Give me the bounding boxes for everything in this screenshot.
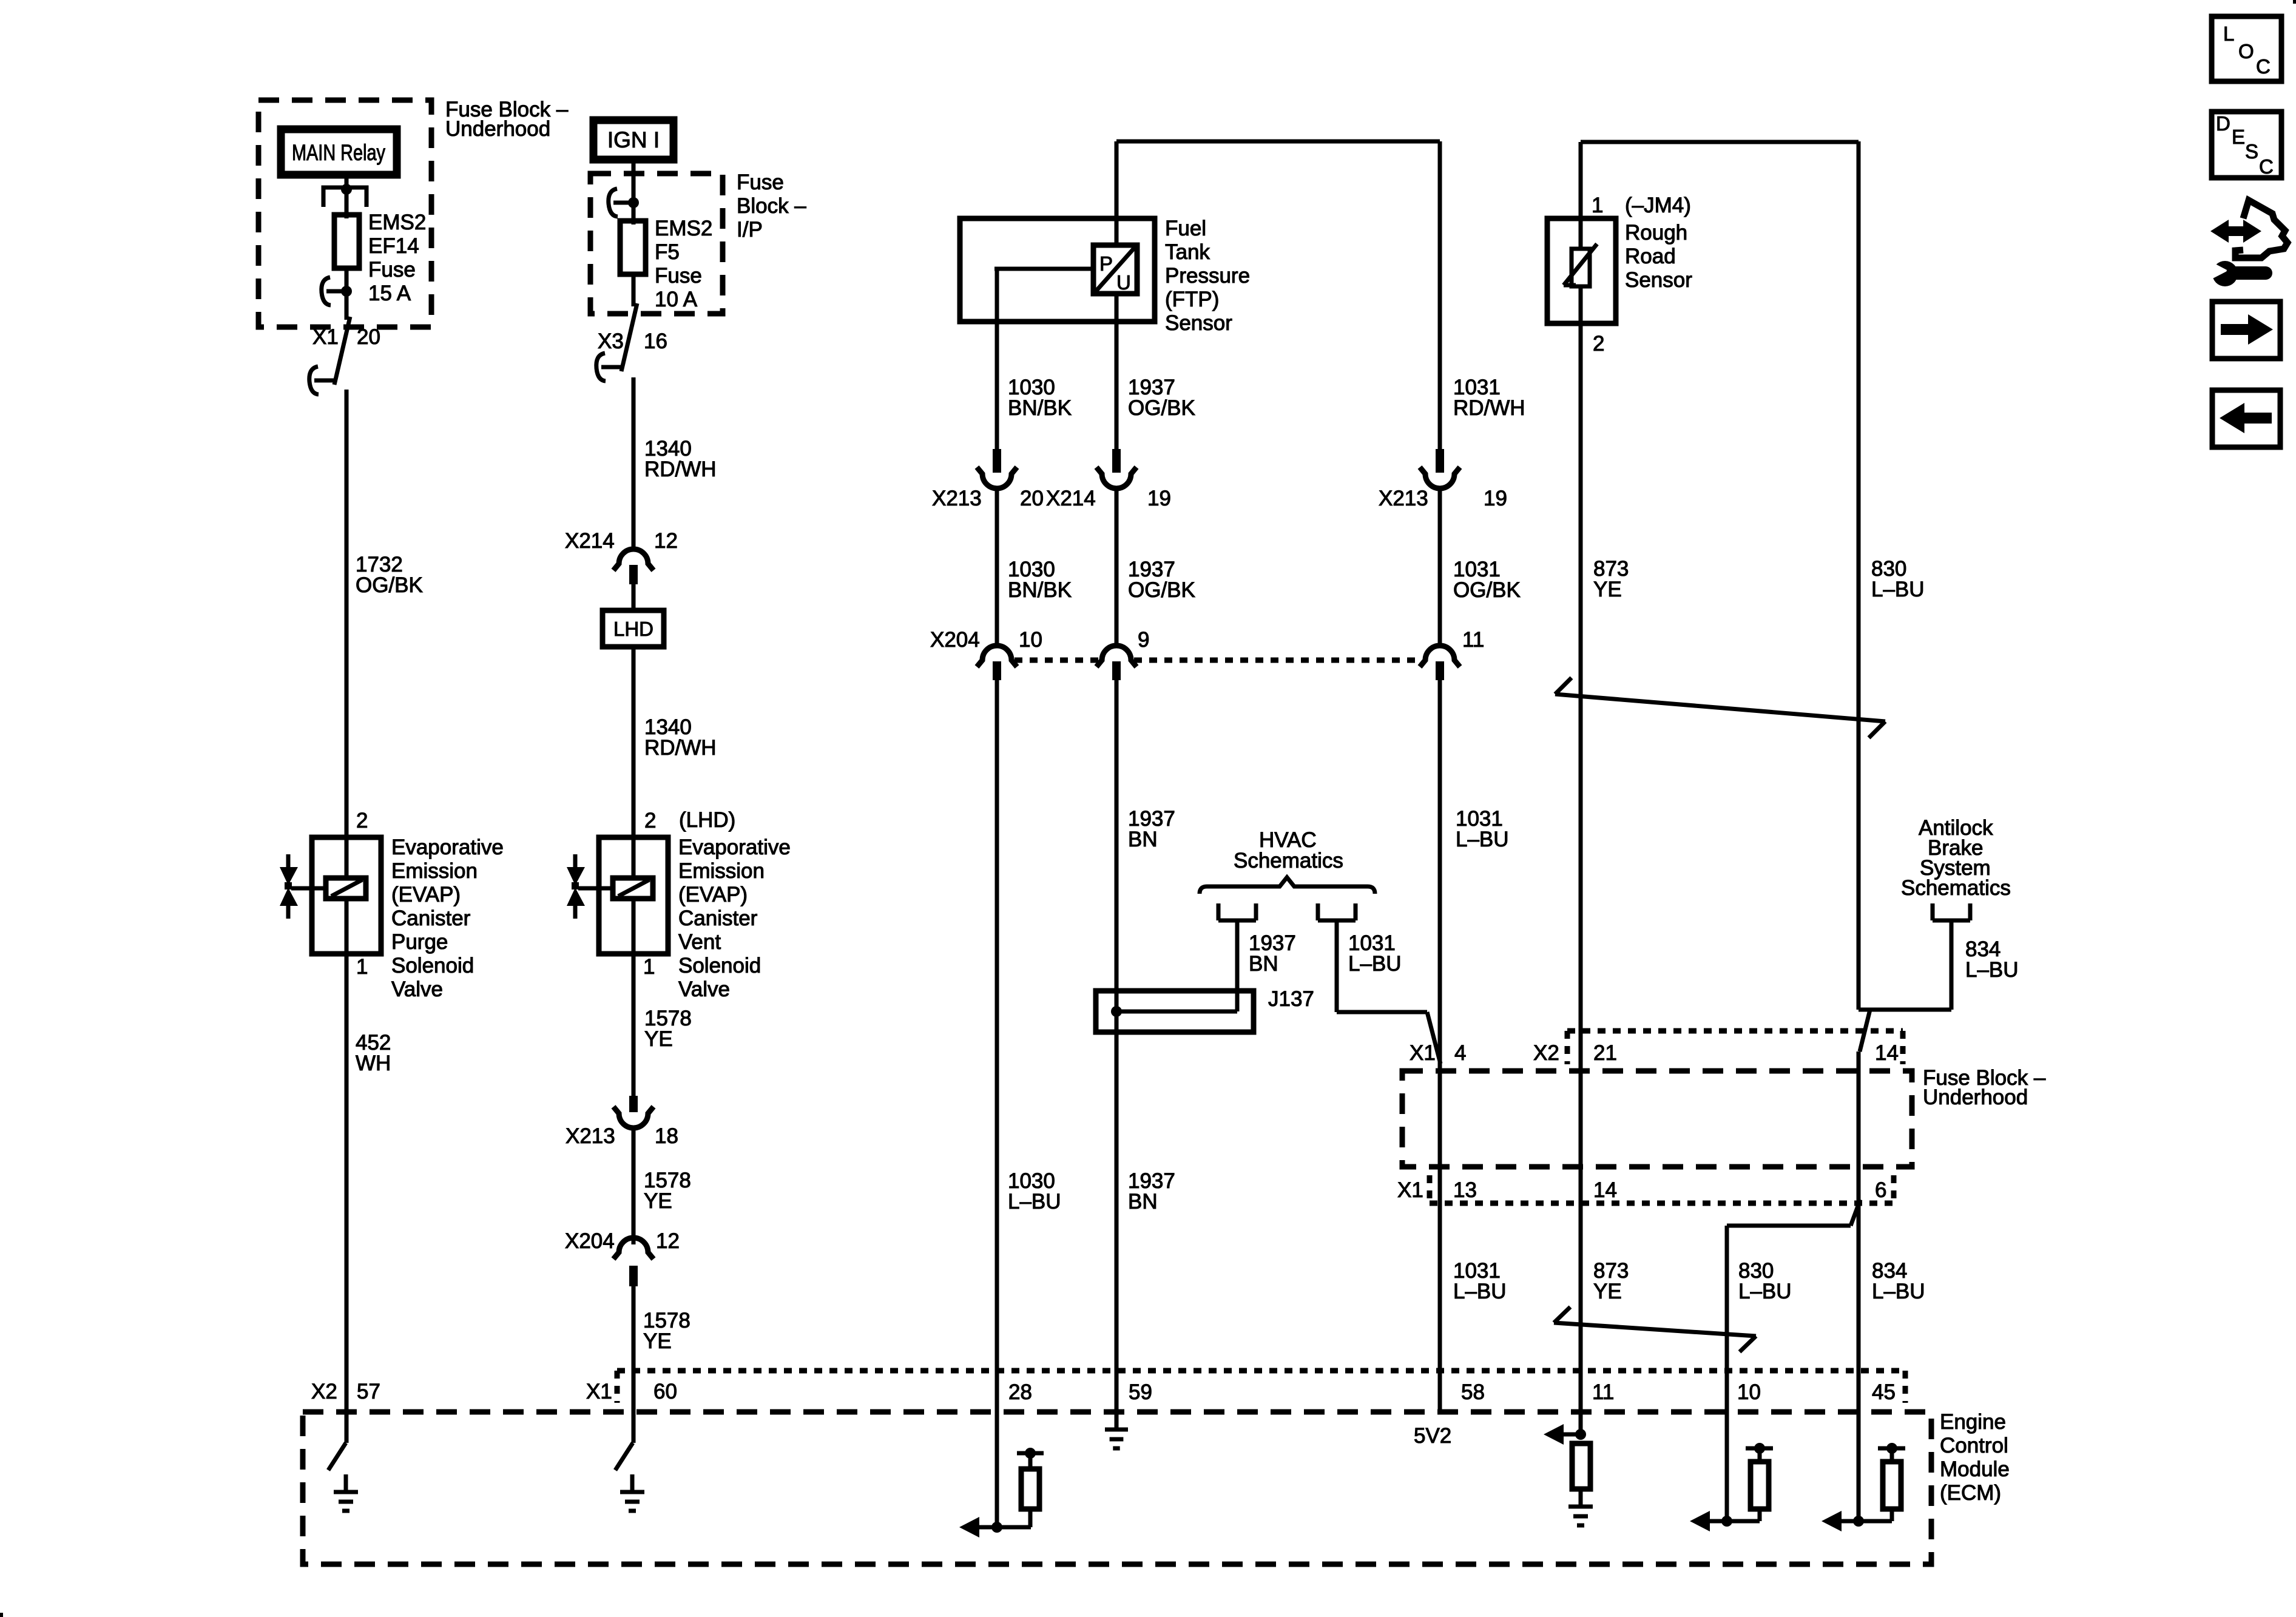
- svg-text:X1: X1: [312, 325, 339, 349]
- svg-text:19: 19: [1484, 487, 1507, 510]
- svg-text:L–BU: L–BU: [1872, 1280, 1925, 1303]
- svg-text:Engine: Engine: [1940, 1410, 2006, 1434]
- connector X1 pin 20 pass-through: [334, 317, 350, 385]
- node ECM pin 11: [1575, 1429, 1586, 1440]
- rough road inner wires: [1579, 218, 1583, 250]
- svg-text:1: 1: [1592, 194, 1603, 217]
- svg-text:Pressure: Pressure: [1165, 264, 1250, 288]
- svg-text:X204: X204: [930, 628, 980, 652]
- HVAC branch post 1937: [1217, 903, 1221, 920]
- wire 1340 RD/WH upper: [632, 377, 636, 550]
- icon adjust outline: [2235, 200, 2288, 258]
- svg-text:Sensor: Sensor: [1625, 268, 1692, 292]
- svg-text:YE: YE: [644, 1027, 673, 1051]
- svg-text:Canister: Canister: [391, 906, 471, 930]
- wire fuse F5 to X3-16: [632, 274, 636, 306]
- svg-text:2: 2: [1593, 332, 1604, 356]
- connector X204 pin 9 dome: [1096, 646, 1136, 667]
- ground ECM pin 11 internal: [1579, 1489, 1583, 1507]
- svg-text:5V2: 5V2: [1414, 1424, 1451, 1448]
- svg-text:BN: BN: [1249, 952, 1278, 976]
- svg-text:13: 13: [1453, 1178, 1477, 1202]
- svg-text:X214: X214: [565, 529, 615, 553]
- wire rough road pin 1: [1579, 142, 1583, 218]
- node fuse EF14 top: [341, 286, 352, 297]
- HVAC brace: [1200, 877, 1375, 894]
- svg-text:OG/BK: OG/BK: [1453, 578, 1521, 602]
- svg-text:19: 19: [1147, 487, 1171, 510]
- wire 834 L-BU from ABS: [1950, 920, 1954, 1010]
- svg-text:OG/BK: OG/BK: [1128, 578, 1195, 602]
- connector X204 pin 9 blade: [1112, 661, 1121, 680]
- connector X3 pin 16 pass-through: [621, 303, 637, 371]
- wire 830 jog to ECM 10: [1727, 1224, 1851, 1228]
- ECM connector dotted line: [617, 1368, 1905, 1374]
- svg-text:D: D: [2216, 112, 2230, 135]
- svg-text:(FTP): (FTP): [1165, 288, 1219, 311]
- thermistor symbol: [1572, 249, 1590, 286]
- svg-text:RD/WH: RD/WH: [644, 736, 717, 760]
- svg-text:Underhood: Underhood: [445, 117, 550, 141]
- fuse block underhood dashed box: [258, 100, 431, 327]
- arrow ECM pin 10 internal: [1690, 1511, 1710, 1531]
- svg-text:10 A: 10 A: [655, 288, 698, 311]
- wire fuse EF14 to X1-20: [345, 268, 349, 320]
- svg-text:1: 1: [356, 955, 368, 979]
- svg-text:L–BU: L–BU: [1348, 952, 1402, 976]
- svg-text:12: 12: [656, 1229, 680, 1253]
- resistor 45 bottom stem: [1890, 1509, 1894, 1521]
- svg-text:X213: X213: [932, 487, 982, 510]
- connector X204 pin 12 blade: [629, 1266, 638, 1286]
- icon wrench: [2212, 261, 2238, 286]
- icon forward box: [2212, 302, 2280, 359]
- svg-text:10: 10: [1019, 628, 1042, 652]
- icon adjust arrow: [2210, 220, 2261, 243]
- svg-text:X3: X3: [598, 329, 624, 353]
- wire 830 in fuse block: [1857, 1052, 1861, 1414]
- svg-text:X1: X1: [586, 1380, 612, 1403]
- svg-text:Schematics: Schematics: [1901, 876, 2011, 900]
- svg-text:20: 20: [357, 325, 380, 349]
- svg-text:IGN I: IGN I: [607, 127, 660, 152]
- J137 bus: [1116, 1010, 1237, 1014]
- svg-text:(LHD): (LHD): [679, 808, 735, 832]
- svg-text:16: 16: [644, 329, 667, 353]
- svg-text:Tank: Tank: [1165, 240, 1210, 264]
- wire 1937 to J137: [1115, 680, 1119, 1426]
- HVAC branch post 1031: [1316, 903, 1320, 920]
- svg-text:X214: X214: [1046, 487, 1096, 510]
- svg-text:Fuel: Fuel: [1165, 217, 1206, 240]
- wire 1031 L-BU to ECM 58: [1438, 680, 1442, 1412]
- corner mark: [0, 1613, 3, 1617]
- svg-text:LHD: LHD: [613, 618, 653, 640]
- connector X204 pin 12 dome: [613, 1238, 653, 1259]
- arrow ECM pin 28 internal: [959, 1517, 979, 1538]
- dotted connector row X1 bottom: [1430, 1201, 1894, 1206]
- icon back box: [2212, 390, 2280, 447]
- resistor ECM pin 45 pull: [1883, 1462, 1901, 1509]
- FTP sensor box: [960, 218, 1155, 322]
- connector X214 pin 19 cup: [1096, 467, 1136, 488]
- connector X214 pin 19 blade: [1112, 449, 1121, 473]
- connector X204 pin 10 dome: [977, 646, 1017, 667]
- svg-text:X213: X213: [1379, 487, 1428, 510]
- fuse EF14: [334, 215, 359, 268]
- wire IGN I to fuse F5: [632, 163, 636, 224]
- svg-text:OG/BK: OG/BK: [1128, 396, 1195, 420]
- EVAP canister purge solenoid valve box: [312, 837, 381, 954]
- wire 1937 through FTP box: [1115, 141, 1119, 449]
- svg-text:EMS2: EMS2: [655, 217, 712, 240]
- svg-text:Road: Road: [1625, 245, 1676, 268]
- splice J137 box: [1096, 991, 1254, 1032]
- ground ECM pin 57 internal: [344, 1474, 348, 1492]
- svg-text:10: 10: [1737, 1380, 1761, 1404]
- svg-text:Module: Module: [1940, 1457, 2010, 1481]
- svg-text:(–JM4): (–JM4): [1625, 194, 1691, 217]
- svg-text:U: U: [1116, 271, 1131, 294]
- svg-text:2: 2: [644, 809, 656, 832]
- svg-text:Solenoid: Solenoid: [391, 954, 474, 977]
- svg-text:4: 4: [1454, 1041, 1466, 1065]
- ground ECM pin 59 internal: [1115, 1412, 1119, 1430]
- wire top bus F to G: [1581, 140, 1859, 144]
- svg-text:6: 6: [1875, 1178, 1886, 1202]
- option box LHD: [603, 610, 664, 647]
- resistor ECM pin 10 pull: [1751, 1462, 1769, 1509]
- relay K MAIN Relay box: [281, 129, 397, 175]
- wire 1030 BN/BK from FTP: [995, 269, 999, 449]
- svg-text:C: C: [2259, 155, 2274, 178]
- connector X204 pin 11 blade: [1436, 661, 1444, 680]
- svg-text:Block –: Block –: [737, 194, 806, 218]
- ABS branch post 834: [1931, 903, 1935, 920]
- svg-text:Control: Control: [1940, 1434, 2008, 1457]
- ECM dashed box: [303, 1412, 1931, 1564]
- svg-text:BN/BK: BN/BK: [1008, 578, 1072, 602]
- svg-text:MAIN Relay: MAIN Relay: [292, 140, 385, 165]
- wire top bus D to E: [1116, 140, 1440, 144]
- node ECM pin 28: [991, 1522, 1002, 1533]
- wire ECM pin 10 internal: [1725, 1414, 1729, 1521]
- svg-text:12: 12: [654, 529, 678, 553]
- svg-text:9: 9: [1138, 628, 1149, 652]
- svg-text:BN/BK: BN/BK: [1008, 396, 1072, 420]
- svg-text:WH: WH: [356, 1052, 391, 1075]
- svg-text:20: 20: [1020, 487, 1044, 510]
- svg-text:58: 58: [1461, 1380, 1485, 1404]
- svg-text:BN: BN: [1128, 1190, 1158, 1214]
- rough road sensor box: [1547, 218, 1616, 323]
- svg-text:L–BU: L–BU: [1456, 828, 1509, 851]
- wire 1031 RD/WH top: [1438, 141, 1442, 449]
- purge valve coil stub: [291, 886, 326, 891]
- wire 873 YE: [1579, 323, 1583, 1434]
- node resistor 28 top: [1025, 1448, 1036, 1459]
- svg-text:Rough: Rough: [1625, 221, 1687, 245]
- connector X214 pin 12 blade: [629, 565, 638, 584]
- wire 1732 OG/BK: [345, 390, 349, 837]
- connector X204 pin 10 blade: [993, 661, 1001, 680]
- svg-text:(EVAP): (EVAP): [678, 883, 748, 906]
- connector X2 pin 14 slash: [1860, 1010, 1870, 1052]
- svg-text:57: 57: [357, 1380, 380, 1403]
- dotted connector row X2: [1567, 1028, 1903, 1034]
- svg-text:Valve: Valve: [391, 977, 443, 1001]
- icon DESC box: [2212, 112, 2281, 178]
- wire 1031 L-BU from HVAC: [1335, 920, 1339, 1012]
- svg-text:Sensor: Sensor: [1165, 311, 1232, 335]
- vent valve coil stub: [578, 886, 613, 891]
- connector X213 pin 18 blade: [629, 1096, 638, 1112]
- svg-text:Purge: Purge: [391, 930, 448, 954]
- icon LOC box: [2212, 16, 2281, 81]
- wire ECM pin 45 internal: [1857, 1414, 1861, 1521]
- svg-text:O: O: [2238, 40, 2254, 62]
- svg-text:X1: X1: [1410, 1041, 1436, 1065]
- svg-text:28: 28: [1008, 1380, 1032, 1404]
- wire 1340 RD/WH lower: [632, 647, 636, 837]
- svg-text:45: 45: [1872, 1380, 1896, 1404]
- resistor 28 bottom stem: [1028, 1509, 1033, 1527]
- ground ECM pin 60 internal: [630, 1474, 635, 1492]
- svg-text:15 A: 15 A: [368, 282, 411, 305]
- wire X214-12 to LHD box: [632, 584, 636, 610]
- connector X1 pin 4 slash: [1427, 1012, 1440, 1064]
- node fuse F5 top: [628, 197, 639, 208]
- svg-text:21: 21: [1593, 1041, 1617, 1065]
- resistor ECM pin 28 pull: [1021, 1469, 1039, 1509]
- svg-text:F5: F5: [655, 240, 680, 264]
- svg-text:Vent: Vent: [678, 930, 721, 954]
- svg-text:S: S: [2245, 140, 2258, 163]
- purge valve symbol: [286, 854, 291, 867]
- svg-text:EF14: EF14: [368, 234, 419, 258]
- node resistor 45 top: [1886, 1443, 1897, 1454]
- svg-text:X2: X2: [311, 1380, 337, 1403]
- svg-text:L–BU: L–BU: [1871, 578, 1925, 601]
- svg-text:I/P: I/P: [737, 218, 763, 241]
- svg-text:Emission: Emission: [391, 859, 478, 883]
- svg-text:Schematics: Schematics: [1234, 849, 1343, 873]
- svg-text:14: 14: [1593, 1178, 1617, 1202]
- svg-text:1: 1: [643, 955, 655, 979]
- svg-text:18: 18: [655, 1124, 678, 1148]
- wire 1031 OG/BK: [1438, 488, 1442, 646]
- switch contact ECM pin 57: [328, 1443, 346, 1470]
- svg-text:14: 14: [1875, 1041, 1899, 1065]
- svg-text:59: 59: [1129, 1380, 1152, 1404]
- svg-text:E: E: [2232, 126, 2245, 148]
- svg-text:YE: YE: [1593, 1280, 1622, 1303]
- svg-text:X213: X213: [566, 1124, 615, 1148]
- svg-text:Fuse: Fuse: [368, 258, 416, 282]
- svg-text:L: L: [2223, 22, 2234, 45]
- svg-text:Canister: Canister: [678, 906, 758, 930]
- resistor 10 top bar: [1746, 1447, 1773, 1451]
- svg-text:Fuse: Fuse: [655, 264, 702, 288]
- leader arrow upper: [1555, 694, 1885, 721]
- svg-text:Fuse: Fuse: [737, 170, 784, 194]
- connector X213 pin 19 blade: [1436, 449, 1444, 473]
- svg-text:Solenoid: Solenoid: [678, 954, 761, 977]
- resistor ECM pin 11 pull: [1572, 1443, 1590, 1489]
- svg-text:RD/WH: RD/WH: [644, 457, 717, 481]
- clip terminal MAIN relay output: [326, 289, 346, 294]
- P/U transducer symbol: [1093, 245, 1137, 294]
- svg-text:Underhood: Underhood: [1923, 1085, 2028, 1109]
- wire 1937 OG/BK 2: [1115, 488, 1119, 646]
- wire 1578 YE segment 1: [632, 954, 636, 1096]
- connector X204 pin 11 dome: [1420, 646, 1460, 667]
- switch contact ECM pin 60: [615, 1443, 633, 1470]
- svg-text:L–BU: L–BU: [1965, 958, 2019, 982]
- resistor 45 top bar: [1878, 1447, 1905, 1451]
- wire MAIN relay to fuse EF14: [345, 178, 349, 218]
- vent valve coil: [613, 878, 653, 899]
- leader arrow lower: [1554, 1323, 1756, 1336]
- power feed IGN I box: [593, 120, 674, 160]
- clip terminal IGN feed: [613, 201, 633, 205]
- arrow ECM pin 11 internal: [1544, 1424, 1564, 1445]
- fuse F5: [620, 221, 646, 274]
- connector X213 pin 19 cup: [1420, 467, 1460, 488]
- svg-text:J137: J137: [1268, 987, 1314, 1011]
- arrow ECM pin 45 internal: [1822, 1511, 1842, 1531]
- svg-text:(EVAP): (EVAP): [391, 883, 461, 906]
- wire 1578 YE segment 3: [632, 1286, 636, 1443]
- svg-text:BN: BN: [1128, 828, 1158, 851]
- svg-text:L–BU: L–BU: [1008, 1190, 1061, 1214]
- connector X213 pin 20 cup: [977, 467, 1017, 488]
- svg-text:X204: X204: [565, 1229, 615, 1253]
- vent valve symbol: [573, 854, 578, 867]
- svg-text:OG/BK: OG/BK: [356, 573, 423, 597]
- connector X214 pin 12 dome: [613, 549, 653, 570]
- connector X213 pin 18 cup: [613, 1107, 653, 1128]
- connector pin 6 slash: [1851, 1200, 1860, 1226]
- svg-text:L–BU: L–BU: [1738, 1280, 1792, 1303]
- wire 1030 L-BU to ECM 28: [995, 680, 999, 1527]
- node relay output: [341, 184, 352, 195]
- node ECM pin 45: [1853, 1516, 1864, 1527]
- svg-text:X2: X2: [1533, 1041, 1559, 1065]
- wire 1937 BN from HVAC: [1235, 920, 1240, 1011]
- fuse block underhood dashed box 2: [1402, 1071, 1912, 1167]
- purge valve coil: [326, 878, 366, 899]
- resistor 28 top bar: [1017, 1451, 1044, 1456]
- connector X213 pin 20 blade: [993, 449, 1001, 473]
- svg-text:11: 11: [1462, 628, 1484, 652]
- svg-text:Evaporative: Evaporative: [391, 836, 504, 859]
- wire 1578 YE segment 2: [632, 1128, 636, 1244]
- svg-text:60: 60: [653, 1380, 677, 1403]
- node resistor 10 top: [1754, 1443, 1765, 1454]
- svg-text:YE: YE: [1593, 578, 1622, 601]
- svg-text:(ECM): (ECM): [1940, 1481, 2001, 1505]
- wire 1030 BN/BK 2: [995, 488, 999, 646]
- wire 452 WH: [345, 954, 349, 1443]
- svg-text:X1: X1: [1397, 1178, 1423, 1202]
- wire 830 L-BU vertical: [1857, 141, 1861, 1010]
- svg-text:P: P: [1099, 252, 1113, 275]
- svg-text:11: 11: [1592, 1380, 1614, 1404]
- node ECM pin 10: [1721, 1516, 1732, 1527]
- node J137 splice: [1111, 1006, 1122, 1017]
- svg-text:L–BU: L–BU: [1453, 1280, 1507, 1303]
- fuse holder bracket: [323, 187, 366, 207]
- resistor 10 bottom stem: [1758, 1509, 1762, 1521]
- svg-text:Valve: Valve: [678, 977, 730, 1001]
- svg-text:Evaporative: Evaporative: [678, 836, 791, 859]
- fuse block I/P dashed box: [590, 174, 723, 314]
- svg-text:YE: YE: [643, 1329, 672, 1353]
- dashed connector line X204: [1015, 658, 1099, 663]
- svg-text:RD/WH: RD/WH: [1453, 396, 1525, 420]
- svg-text:Emission: Emission: [678, 859, 765, 883]
- svg-text:EMS2: EMS2: [368, 211, 426, 234]
- EVAP canister vent solenoid valve box: [599, 837, 668, 954]
- wire 1031 in fuse block: [1438, 1064, 1442, 1412]
- svg-text:C: C: [2256, 55, 2271, 78]
- wire FTP internal horizontal: [994, 267, 1093, 271]
- svg-text:YE: YE: [644, 1189, 672, 1213]
- svg-text:2: 2: [356, 809, 368, 832]
